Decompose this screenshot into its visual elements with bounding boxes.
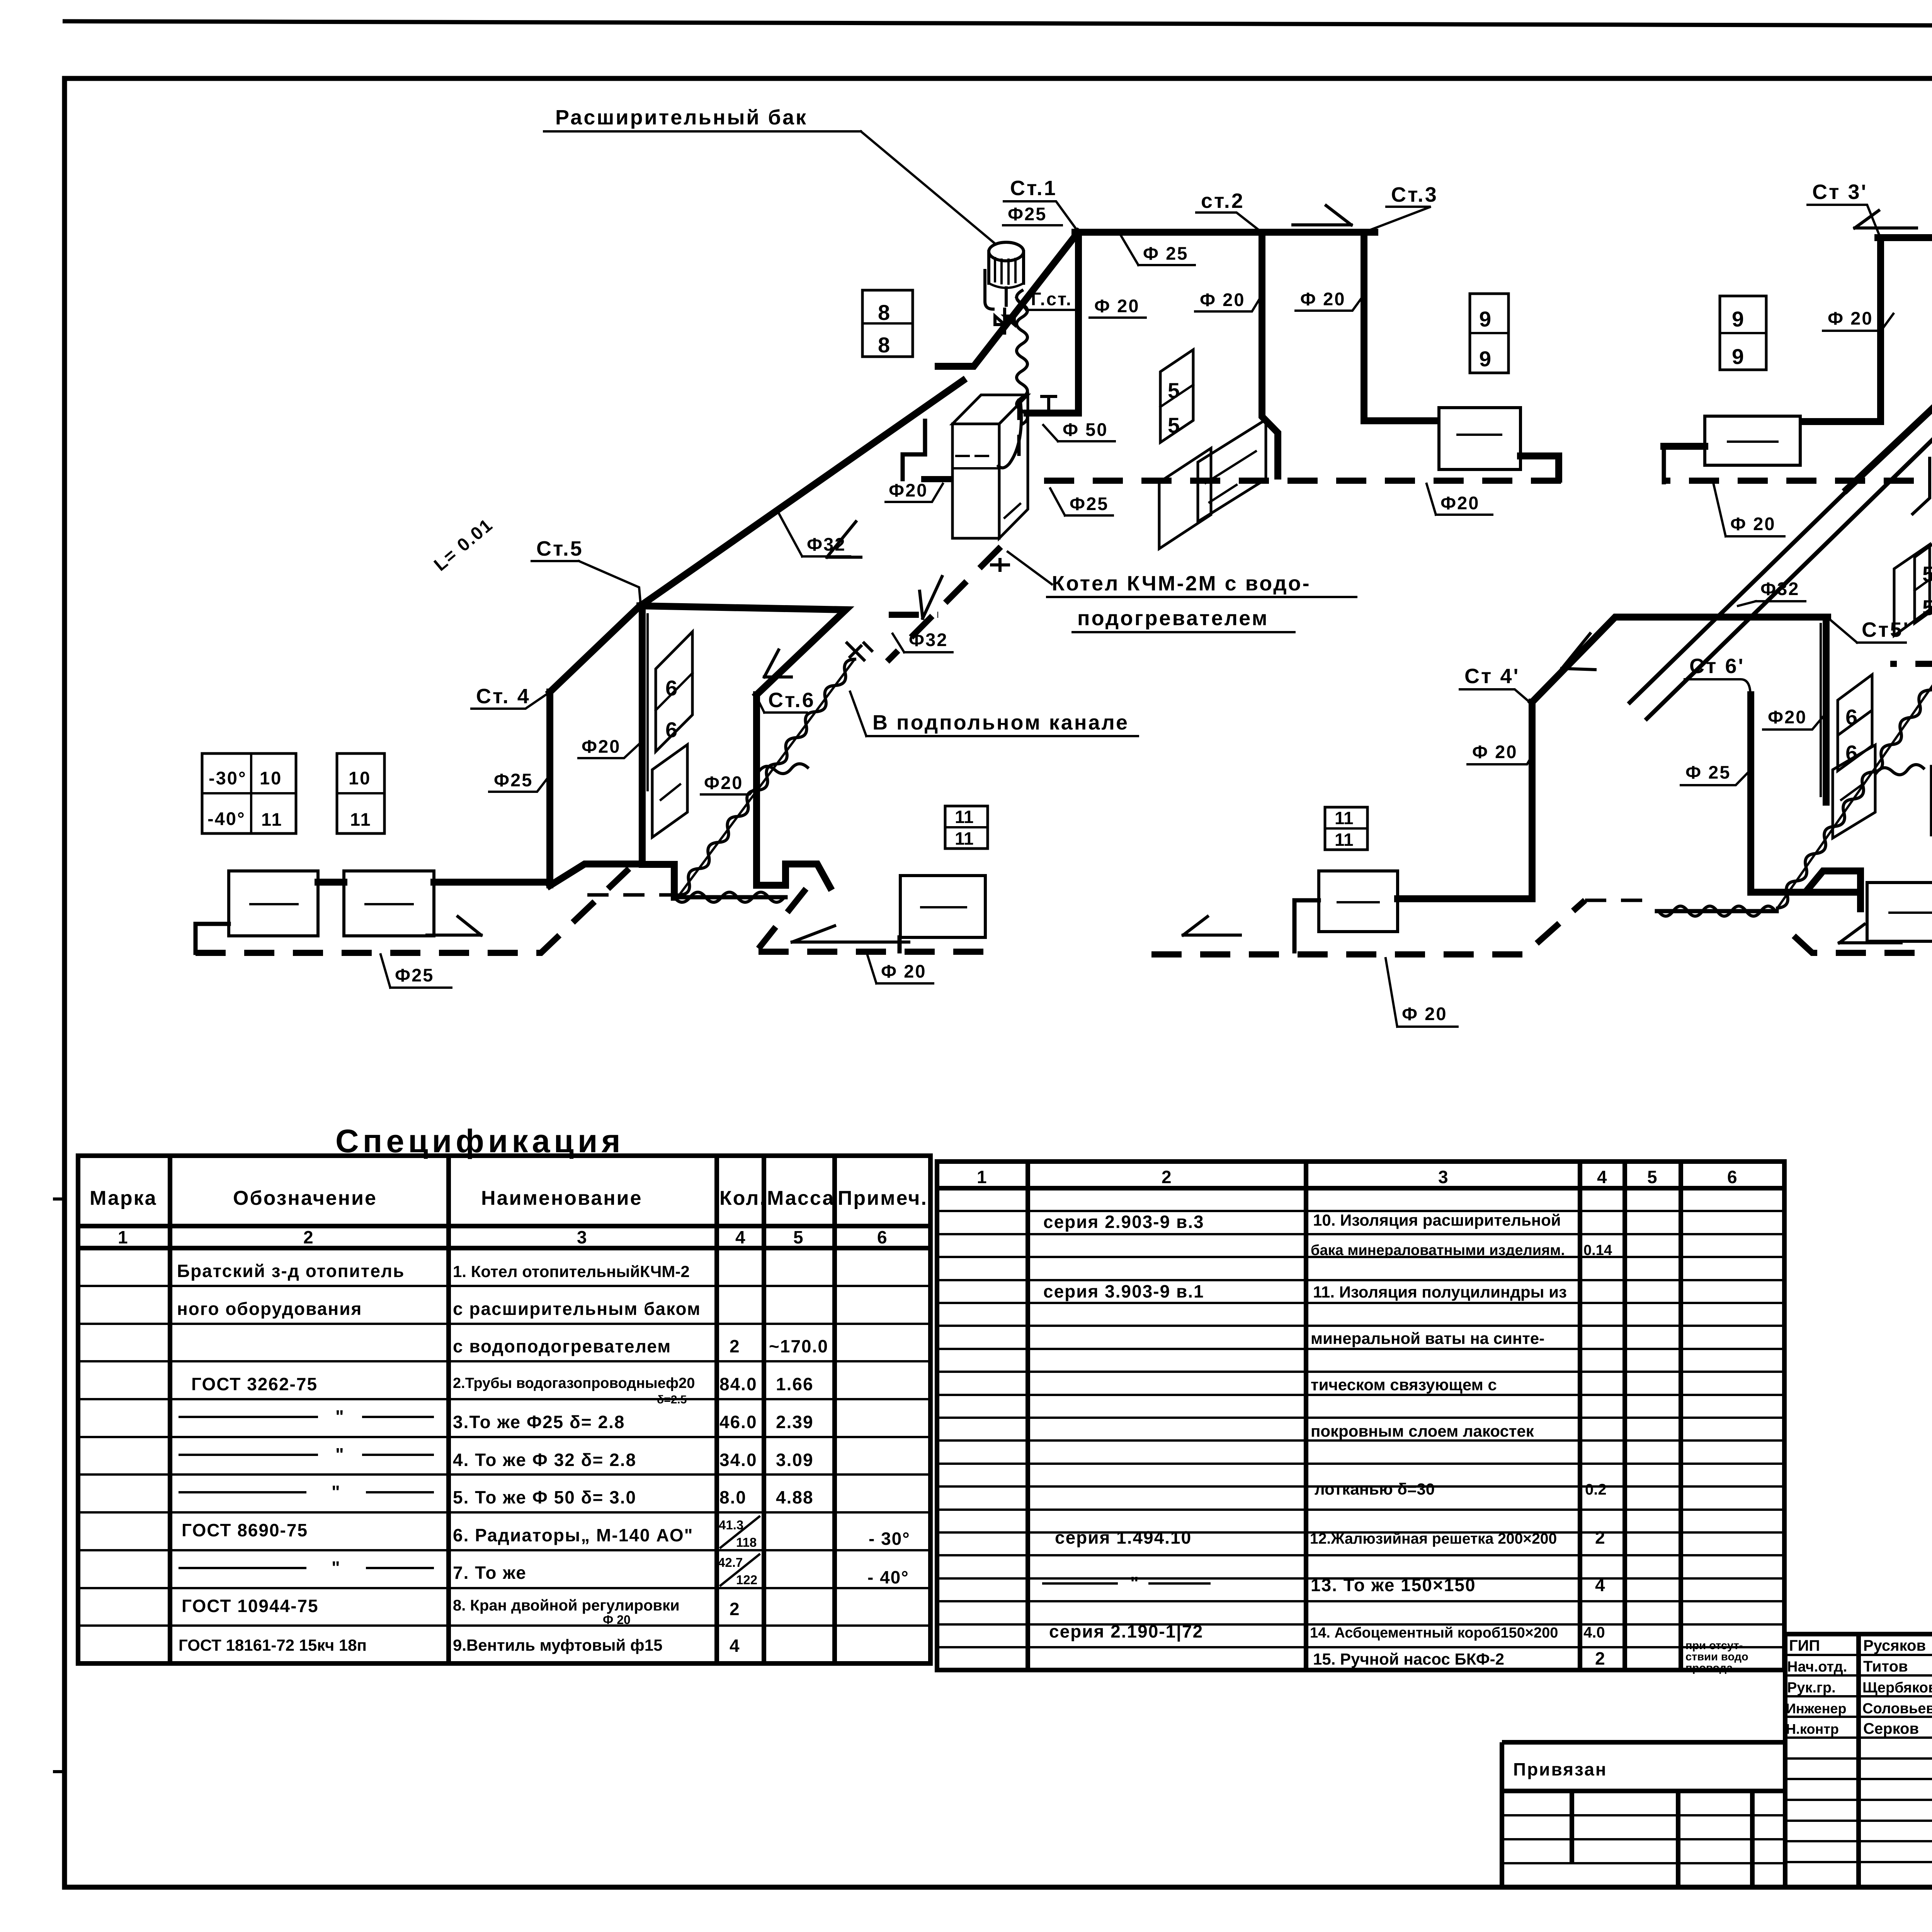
callout box 9/9 right <box>1720 296 1766 370</box>
plate inner dashes <box>1206 451 1256 502</box>
svg-text:2: 2 <box>730 1599 740 1619</box>
svg-text:": " <box>332 1558 341 1578</box>
underline + leader <box>471 693 549 709</box>
svg-text:8: 8 <box>878 300 890 325</box>
dashed horizontal at Ф32 <box>1890 661 1932 667</box>
callout box 6/6 right (sheared) <box>1838 675 1872 771</box>
svg-text:6: 6 <box>665 676 677 700</box>
svg-text:4: 4 <box>1595 1575 1606 1595</box>
svg-text:при отсут-: при отсут- <box>1685 1639 1743 1652</box>
svg-text:2.39: 2.39 <box>776 1412 814 1432</box>
svg-text:9: 9 <box>1732 307 1744 331</box>
underline of label <box>544 130 861 133</box>
svg-text:3.То же Ф25 δ= 2.8: 3.То же Ф25 δ= 2.8 <box>453 1412 625 1432</box>
svg-text:~170.0: ~170.0 <box>769 1336 828 1356</box>
svg-text:4. То же Ф 32 δ= 2.8: 4. То же Ф 32 δ= 2.8 <box>453 1450 636 1470</box>
boiler lower drain valve <box>992 560 1009 570</box>
underline <box>1008 552 1356 597</box>
outer <box>1502 1742 1785 1887</box>
svg-text:Ф32: Ф32 <box>807 534 846 554</box>
underline + leader <box>489 777 549 792</box>
svg-text:лотканью δ=30: лотканью δ=30 <box>1315 1480 1435 1498</box>
Ф50 pipe inside boiler (curved) <box>998 402 1021 468</box>
underline <box>1073 631 1294 633</box>
svg-text:2: 2 <box>1595 1527 1606 1548</box>
return main (dashed) upper <box>1030 478 1561 484</box>
svg-text:3.09: 3.09 <box>776 1450 814 1470</box>
temperature key table -30/10 -40/11 <box>202 753 296 833</box>
svg-text:Примеч.: Примеч. <box>838 1187 928 1209</box>
underline Г.ст. <box>1016 298 1080 310</box>
svg-text:11: 11 <box>350 809 372 830</box>
svg-text:42.7: 42.7 <box>718 1555 743 1570</box>
svg-text:2: 2 <box>1595 1648 1606 1668</box>
chevron arrow on Ф32 dashed <box>920 577 942 618</box>
insulated pipe coil diagonal 1 <box>679 659 855 895</box>
bottom return (dashed) left <box>196 869 629 953</box>
svg-text:Ф 50: Ф 50 <box>1063 419 1108 440</box>
svg-text:11: 11 <box>955 807 974 827</box>
svg-text:-30°: -30° <box>209 768 247 788</box>
underline + leader <box>1763 715 1825 730</box>
radiator plate near Ст.2 (sheared) <box>1198 420 1266 522</box>
svg-text:": " <box>332 1482 341 1502</box>
svg-text:с расширительным баком: с расширительным баком <box>453 1299 701 1319</box>
svg-text:Ф25: Ф25 <box>1070 493 1109 514</box>
svg-text:серия 3.903-9 в.1: серия 3.903-9 в.1 <box>1043 1281 1204 1301</box>
underline + leader <box>1828 618 1906 643</box>
bottom radiators R2 R3 <box>229 871 318 936</box>
callout box 10/11 <box>337 753 384 833</box>
underline + leader <box>893 634 952 652</box>
floor channel coil (horizontal) <box>673 895 786 900</box>
svg-text:Ф20: Ф20 <box>582 736 621 757</box>
svg-text:Ф 20: Ф 20 <box>1730 514 1776 534</box>
R1' left connect <box>1664 443 1705 450</box>
radiator R1 (Ст.3) <box>1439 408 1520 469</box>
diagonal Ст.5 to Ст.4 <box>550 606 640 692</box>
underline + leader <box>850 692 1138 736</box>
svg-text:1.66: 1.66 <box>776 1374 814 1394</box>
underline and leader <box>1121 235 1195 265</box>
svg-text:ст.2: ст.2 <box>1201 189 1245 213</box>
svg-text:Щербякова: Щербякова <box>1862 1680 1932 1696</box>
svg-text:3: 3 <box>577 1227 588 1247</box>
header band rules <box>78 1226 930 1248</box>
underline + leader <box>1043 425 1115 441</box>
svg-text:14. Асбоцементный короб150×200: 14. Асбоцементный короб150×200 <box>1310 1625 1558 1641</box>
svg-text:Ф 20: Ф 20 <box>1472 742 1517 762</box>
R2-R3 connector <box>318 879 344 886</box>
outer <box>1785 1634 1932 1887</box>
svg-text:Кол.: Кол. <box>719 1187 767 1209</box>
svg-text:5: 5 <box>1168 413 1180 437</box>
underline + leader <box>886 484 943 502</box>
svg-text:2: 2 <box>1162 1167 1172 1187</box>
svg-text:11: 11 <box>955 828 974 849</box>
svg-text:бака минераловатными изделиям.: бака минераловатными изделиям. <box>1311 1242 1565 1259</box>
svg-text:9.Вентиль муфтовый ф15: 9.Вентиль муфтовый ф15 <box>453 1636 662 1654</box>
svg-text:Ф 20: Ф 20 <box>1200 289 1245 310</box>
callout boxes 10/11 pair <box>1931 766 1932 835</box>
underline Ф25 <box>1003 224 1062 226</box>
svg-text:Ст 3': Ст 3' <box>1812 180 1867 204</box>
svg-text:- 30°: - 30° <box>869 1529 910 1549</box>
svg-text:Ф20: Ф20 <box>889 480 928 500</box>
chevron arrow on wall diagonal <box>827 522 861 557</box>
callout box 11/11 right diagram <box>1325 807 1367 850</box>
R4 drop to return <box>898 937 902 951</box>
svg-text:6: 6 <box>665 718 677 742</box>
bottom dashed return left segment (right diagram) <box>1151 900 1585 954</box>
riser Ст4' <box>1529 702 1536 899</box>
boiler divider <box>952 467 999 469</box>
Ст.6 bottom run and notch <box>757 864 830 887</box>
Ст6' bottom run <box>1751 892 1861 909</box>
R2 left support and drop <box>196 924 229 953</box>
svg-text:": " <box>335 1406 345 1427</box>
callout box 8/8 <box>862 290 913 357</box>
svg-text:1. Котел отопительныйКЧМ-2: 1. Котел отопительныйКЧМ-2 <box>453 1262 690 1281</box>
svg-text:11: 11 <box>1335 830 1354 850</box>
svg-text:Котел КЧМ-2М с водо-: Котел КЧМ-2М с водо- <box>1052 572 1311 595</box>
svg-text:Ф 20: Ф 20 <box>1828 308 1873 328</box>
svg-text:- 40°: - 40° <box>867 1567 909 1587</box>
underline + leader <box>1823 314 1893 331</box>
svg-text:подогревателем: подогревателем <box>1077 607 1269 630</box>
expansion tank (cylinder) <box>989 242 1024 288</box>
underline + leader <box>701 784 758 794</box>
svg-text:8.0: 8.0 <box>719 1487 747 1507</box>
radiator R5' (Ст4') <box>1319 871 1398 932</box>
chevron arrow on roof diagonal <box>1562 634 1595 670</box>
svg-text:Ф 20: Ф 20 <box>881 961 926 981</box>
svg-text:Ст 4': Ст 4' <box>1464 665 1520 688</box>
underline + leader <box>867 955 933 983</box>
svg-text:7. То же: 7. То же <box>453 1563 527 1583</box>
radiator plate near 6/6 (sheared) <box>652 745 687 837</box>
hidden return dashed under coil <box>587 893 673 897</box>
chevron arrow near Ст.6 diagonal <box>764 650 791 677</box>
radiator R1' <box>1705 416 1800 465</box>
svg-text:Ф 25: Ф 25 <box>1143 243 1188 264</box>
svg-text:4: 4 <box>1597 1167 1608 1187</box>
boiler right face <box>999 395 1028 538</box>
svg-text:Масса: Масса <box>767 1187 835 1209</box>
riser Ст3' <box>1800 238 1881 422</box>
svg-text:8: 8 <box>878 333 890 357</box>
svg-text:ГОСТ 18161-72 15кч 18п: ГОСТ 18161-72 15кч 18п <box>179 1636 367 1654</box>
main diagonal from Cm1' with break <box>1847 238 1932 490</box>
svg-text:Рук.гр.: Рук.гр. <box>1787 1680 1836 1696</box>
svg-text:10: 10 <box>349 768 371 788</box>
floor channel coil horizontal right <box>1657 909 1777 913</box>
callout box 5/5 right (sheared) <box>1915 532 1932 623</box>
svg-text:5. То же Ф 50 δ= 3.0: 5. То же Ф 50 δ= 3.0 <box>453 1487 636 1507</box>
svg-text:Ф 20: Ф 20 <box>603 1613 631 1627</box>
underline + leader <box>1195 294 1263 311</box>
svg-text:Ф20: Ф20 <box>704 772 743 793</box>
svg-text:Ф 20: Ф 20 <box>1402 1003 1447 1024</box>
svg-text:серия 1.494.10: серия 1.494.10 <box>1055 1527 1192 1548</box>
svg-text:3: 3 <box>1438 1167 1449 1187</box>
coil diagonal 1 right <box>1777 663 1932 908</box>
underline + leader <box>1468 753 1533 764</box>
svg-text:2: 2 <box>730 1336 740 1356</box>
svg-text:Ст.1: Ст.1 <box>1010 177 1057 200</box>
bottom supply line to Ст.4 <box>434 879 550 886</box>
R1 outlet to return <box>1520 456 1559 479</box>
underline + leader <box>1738 601 1805 606</box>
dashed vert inside boiler <box>1017 399 1021 464</box>
flow arrow top (pointing left) <box>1855 211 1917 228</box>
vertical rules <box>170 1156 835 1663</box>
flow arrow on top main <box>1293 206 1351 225</box>
channel end notch <box>1913 458 1930 514</box>
wall main diagonal with break (Ст.1 to Ст.5) <box>641 232 1078 605</box>
svg-text:10: 10 <box>260 768 282 788</box>
svg-text:34.0: 34.0 <box>719 1450 757 1470</box>
boiler front face <box>952 424 999 538</box>
svg-text:Ст 6': Ст 6' <box>1689 655 1745 678</box>
svg-text:ГИП: ГИП <box>1789 1637 1820 1654</box>
svg-text:Нач.отд.: Нач.отд. <box>1787 1659 1847 1675</box>
verticals <box>1572 1791 1752 1887</box>
svg-text:8. Кран двойной регулировки: 8. Кран двойной регулировки <box>453 1597 680 1614</box>
flow arrow bottom centre <box>792 926 909 942</box>
main riser coil Г.ст. (zigzag) <box>1017 291 1027 424</box>
svg-text:5: 5 <box>793 1227 804 1247</box>
row 9 ditto radiators <box>180 1567 433 1569</box>
tick on left frame <box>53 1199 65 1772</box>
leader to expansion tank <box>861 131 996 244</box>
svg-text:122: 122 <box>736 1573 757 1587</box>
svg-text:Инженер: Инженер <box>1786 1701 1846 1716</box>
step into radiators <box>1808 871 1861 892</box>
boiler КЧМ-2М top face <box>952 395 1028 424</box>
top supply main Ст.1-Ст.3 <box>1075 229 1375 236</box>
svg-text:Ф32: Ф32 <box>909 629 948 650</box>
svg-text:ГОСТ 8690-75: ГОСТ 8690-75 <box>182 1520 308 1540</box>
svg-text:": " <box>335 1444 345 1464</box>
insulated pipe coil horizontal mid <box>759 764 808 774</box>
svg-text:Марка: Марка <box>90 1187 157 1209</box>
svg-text:10. Изоляция расширительной: 10. Изоляция расширительной <box>1313 1211 1561 1229</box>
svg-text:46.0: 46.0 <box>719 1412 757 1432</box>
hidden dashed under coil right <box>1585 899 1654 902</box>
header rule <box>937 1186 1784 1190</box>
coil horizontal mid right <box>1876 765 1923 775</box>
svg-text:покровным слоем лакостек: покровным слоем лакостек <box>1311 1422 1534 1440</box>
row lines <box>1785 1655 1932 1862</box>
riser Ст5' double <box>1823 617 1830 802</box>
valve on tank drain <box>995 309 1014 333</box>
svg-text:Н.контр: Н.контр <box>1786 1721 1839 1737</box>
return dashed left of boiler <box>903 476 951 482</box>
radiators R3' R4' <box>1867 883 1932 941</box>
svg-text:Ст.6: Ст.6 <box>768 689 815 712</box>
radiator plate below 5/5 <box>1159 448 1211 549</box>
svg-text:Ст. 4: Ст. 4 <box>476 685 531 708</box>
callout box 5/5 (sheared) <box>1160 350 1193 442</box>
top supply main Ст3'-Cm1' <box>1878 234 1932 241</box>
svg-text:5: 5 <box>1168 378 1180 403</box>
flow arrow on bottom return <box>427 917 481 935</box>
underline + leader <box>1296 294 1365 311</box>
svg-text:Ст.3: Ст.3 <box>1391 183 1438 206</box>
underline + leader <box>1685 679 1750 696</box>
svg-text:9: 9 <box>1732 344 1744 369</box>
svg-text:2.Трубы водогазопроводныеф20: 2.Трубы водогазопроводныеф20 <box>453 1375 695 1391</box>
svg-text:ГОСТ 10944-75: ГОСТ 10944-75 <box>182 1596 319 1616</box>
svg-text:Ф25: Ф25 <box>395 965 434 985</box>
underline + leader <box>1196 213 1261 232</box>
svg-text:13. То же 150×150: 13. То же 150×150 <box>1311 1575 1476 1595</box>
Ст.5 riser (double line) <box>639 606 646 864</box>
svg-text:2: 2 <box>303 1227 314 1247</box>
valve and pipe into boiler top <box>1027 410 1078 417</box>
main riser Ст.1 (vertical) <box>1075 232 1082 413</box>
flow arrow <box>1183 917 1240 935</box>
svg-text:Ф25: Ф25 <box>1008 204 1047 224</box>
underline + leader <box>1365 207 1431 232</box>
dashed return at boiler bottom left <box>889 612 938 618</box>
svg-text:δ=2.5: δ=2.5 <box>657 1393 687 1406</box>
underline + leader <box>532 561 641 605</box>
svg-text:с водоподогревателем: с водоподогревателем <box>453 1336 671 1356</box>
radiator plate P1' (sheared) <box>1833 745 1875 838</box>
flow arrow pointing left <box>1839 924 1901 943</box>
underline + leader <box>756 696 807 713</box>
svg-text:ствии водо: ствии водо <box>1685 1651 1748 1663</box>
svg-text:Ф 20: Ф 20 <box>1300 289 1345 309</box>
svg-text:11: 11 <box>1335 808 1354 828</box>
floor channel band (double diagonal) <box>1630 377 1932 702</box>
verticals <box>1859 1634 1932 1887</box>
bottom return dashed right diagram <box>1781 923 1932 953</box>
svg-text:84.0: 84.0 <box>719 1374 757 1394</box>
underline + leader <box>578 743 641 758</box>
riser Ст6' <box>1747 695 1754 892</box>
boiler internal dashes <box>956 456 1020 518</box>
svg-text:Ф 20: Ф 20 <box>1094 296 1139 316</box>
svg-text:6: 6 <box>877 1227 888 1247</box>
R5' left support <box>1294 900 1319 951</box>
svg-text:1: 1 <box>977 1167 988 1187</box>
air vent tee on coil top <box>847 643 872 660</box>
bottom return dashed right segment <box>759 889 989 952</box>
svg-text:0.2: 0.2 <box>1585 1481 1607 1498</box>
horizontals <box>1502 1815 1785 1863</box>
valve symbol <box>1042 396 1056 413</box>
svg-text:Наименование: Наименование <box>481 1187 643 1209</box>
underline + leader <box>381 954 451 988</box>
row: ditto 13 <box>1043 1582 1209 1585</box>
table grid outer <box>937 1162 1784 1670</box>
svg-text:": " <box>1130 1573 1139 1593</box>
callout box 9/9 (left diagram) <box>1470 294 1509 373</box>
svg-text:6: 6 <box>1845 705 1857 729</box>
svg-text:0.14: 0.14 <box>1583 1242 1612 1259</box>
svg-text:4: 4 <box>730 1636 740 1656</box>
underline + leader <box>1714 485 1784 536</box>
svg-text:Титов: Титов <box>1863 1658 1908 1675</box>
riser Ст.4 <box>546 692 553 885</box>
svg-text:5: 5 <box>1647 1167 1658 1187</box>
svg-text:9: 9 <box>1479 307 1491 331</box>
svg-text:Братский з-д отопитель: Братский з-д отопитель <box>177 1261 405 1281</box>
svg-text:ГОСТ 3262-75: ГОСТ 3262-75 <box>191 1374 318 1394</box>
svg-text:Ф20: Ф20 <box>1440 493 1480 513</box>
svg-text:41.3: 41.3 <box>719 1518 743 1532</box>
svg-text:провода: провода <box>1685 1662 1733 1674</box>
svg-text:-40°: -40° <box>207 808 246 829</box>
svg-text:15. Ручной насос БКФ-2: 15. Ручной насос БКФ-2 <box>1313 1650 1504 1668</box>
underline + leader <box>1808 205 1880 236</box>
riser Ст.6 <box>753 695 760 881</box>
svg-text:4.88: 4.88 <box>776 1487 814 1507</box>
row 7 ditto <box>180 1491 433 1493</box>
svg-text:Русяков: Русяков <box>1863 1637 1926 1654</box>
svg-text:Обозначение: Обозначение <box>233 1187 377 1209</box>
svg-text:минеральной ваты на синте-: минеральной ваты на синте- <box>1311 1329 1544 1347</box>
svg-text:Расширительный бак: Расширительный бак <box>555 106 808 129</box>
svg-text:серия 2.190-1|72: серия 2.190-1|72 <box>1049 1621 1203 1641</box>
sheet top edge line <box>63 21 1932 27</box>
svg-text:Ф25: Ф25 <box>494 770 533 790</box>
svg-text:11. Изоляция полуцилиндры из: 11. Изоляция полуцилиндры из <box>1313 1283 1567 1301</box>
svg-text:В подпольном канале: В подпольном канале <box>872 711 1129 734</box>
svg-text:118: 118 <box>736 1535 757 1549</box>
Ст5' roof: diagonal + horizontal <box>1532 617 1828 702</box>
svg-text:6: 6 <box>1727 1167 1738 1187</box>
underline + leader <box>1050 488 1113 515</box>
svg-text:Ф32: Ф32 <box>1760 578 1799 599</box>
svg-text:12.Жалюзийная решетка 200×200: 12.Жалюзийная решетка 200×200 <box>1310 1531 1557 1547</box>
svg-text:Привязан: Привязан <box>1513 1759 1607 1779</box>
svg-text:4.0: 4.0 <box>1583 1624 1605 1641</box>
Ст.5 bottom step <box>642 864 674 897</box>
underline + leader <box>1681 771 1750 785</box>
svg-text:тическом связующем с: тическом связующем с <box>1311 1376 1497 1394</box>
tank drain pipe with hook <box>985 270 1006 309</box>
Ст.5 top corner and roof line <box>640 606 846 695</box>
underline + leader <box>1386 958 1458 1027</box>
svg-text:Ф20: Ф20 <box>1768 707 1807 727</box>
underline <box>1090 316 1146 319</box>
svg-text:Серков: Серков <box>1863 1720 1919 1737</box>
riser Ст.2 <box>1262 232 1278 476</box>
row 6 ditto <box>180 1454 433 1456</box>
radiator R4 <box>900 876 985 937</box>
svg-text:Г.ст.: Г.ст. <box>1031 289 1072 309</box>
row 5 ditto <box>180 1416 433 1418</box>
radiator plate P2' (sheared) <box>1894 544 1930 636</box>
svg-text:4: 4 <box>735 1227 746 1247</box>
svg-text:6. Радиаторы„ М-140 АО": 6. Радиаторы„ М-140 АО" <box>453 1525 693 1545</box>
callout box 6/6 (sheared) <box>656 632 692 752</box>
header bottom rule <box>1502 1789 1785 1793</box>
svg-text:11: 11 <box>261 809 283 830</box>
bottom ledge left of Ст.5 <box>550 864 642 886</box>
svg-text:ного оборудования: ного оборудования <box>177 1299 362 1319</box>
svg-text:9: 9 <box>1479 347 1491 371</box>
vertical rules <box>1028 1162 1681 1670</box>
return step into boiler top <box>903 421 925 479</box>
row rules <box>937 1211 1784 1647</box>
svg-text:серия 2.903-9 в.3: серия 2.903-9 в.3 <box>1043 1212 1204 1232</box>
callout box 11/11 <box>945 806 988 849</box>
